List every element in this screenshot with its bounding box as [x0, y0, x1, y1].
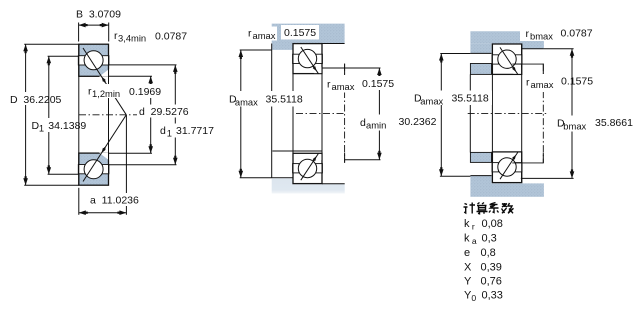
svg-text:3,4min: 3,4min	[118, 33, 146, 44]
svg-text:B 3.0709: B 3.0709	[76, 9, 121, 21]
label a 11.0236	[88, 193, 143, 207]
bearing outer ring top section (blue)	[79, 44, 110, 77]
bearing bottom section (right)	[492, 152, 521, 183]
housing shoulder face line	[271, 44, 273, 179]
svg-text:e: e	[464, 247, 470, 259]
ball bottom	[84, 160, 103, 179]
svg-text:amax: amax	[253, 30, 276, 41]
svg-text:35.5118: 35.5118	[266, 94, 303, 106]
bearing bottom section (blue)	[79, 153, 110, 186]
svg-text:amax: amax	[332, 81, 355, 92]
svg-text:r: r	[526, 77, 530, 89]
dimension d	[109, 76, 154, 153]
bearing side faces (right)	[492, 44, 521, 183]
shaft band bottom right (blue)	[470, 183, 544, 196]
svg-text:0,08: 0,08	[482, 218, 503, 230]
label ramax 0.1575 (middle right)	[325, 76, 398, 93]
svg-text:0.1575: 0.1575	[561, 76, 593, 88]
dimension Dbmax	[521, 49, 575, 179]
label Dbmax 35.8661	[555, 116, 635, 132]
svg-text:0.1575: 0.1575	[362, 78, 394, 90]
svg-text:0.0787: 0.0787	[155, 31, 187, 43]
svg-text:bmax: bmax	[530, 31, 553, 42]
label Damax 35.5118 (middle)	[227, 91, 308, 108]
shoulder bottom right fig	[470, 176, 491, 186]
svg-text:bmax: bmax	[563, 121, 586, 132]
axis line left figure	[79, 114, 137, 116]
label r3,4min 0.0787	[112, 29, 190, 44]
dimension d1	[109, 65, 178, 165]
housing band top right (blue)	[470, 31, 544, 49]
ball middle top	[298, 49, 316, 67]
svg-text:0,39: 0,39	[481, 262, 502, 274]
dimension a	[79, 115, 127, 215]
dimension B	[79, 23, 109, 42]
ball middle bottom	[298, 159, 316, 177]
dimension Da (middle)	[239, 50, 272, 178]
svg-text:k a: k a	[464, 233, 477, 247]
svg-text:1,2min: 1,2min	[92, 88, 120, 99]
dimension D1	[47, 56, 79, 174]
label ramax 0.1575 (right)	[524, 74, 597, 93]
glyph 算	[477, 203, 488, 214]
svg-text:0,33: 0,33	[482, 290, 503, 302]
svg-text:0,3: 0,3	[482, 233, 497, 245]
ball right top	[498, 50, 516, 68]
bearing top section (right)	[492, 44, 521, 74]
bearing side faces (middle)	[293, 44, 322, 184]
inner ring reference lines (right)	[512, 64, 543, 164]
svg-text:30.2362: 30.2362	[399, 116, 437, 128]
svg-text:0,76: 0,76	[481, 276, 502, 288]
contact line middle top	[301, 47, 319, 74]
svg-text:0,8: 0,8	[481, 247, 496, 259]
bearing top section (middle)	[293, 44, 322, 74]
svg-text:r: r	[327, 79, 331, 91]
dimension damin	[322, 68, 382, 160]
bottom section side notches	[78, 165, 109, 174]
spacer face line	[469, 74, 471, 152]
housing band top (blue)	[272, 24, 345, 50]
label d1 31.7717	[158, 124, 219, 139]
label Damax 35.5118 (right)	[412, 91, 492, 107]
svg-text:1: 1	[167, 128, 172, 139]
svg-text:Y: Y	[464, 276, 472, 288]
svg-text:Y0: Y0	[464, 290, 476, 304]
svg-text:D 36.2205: D 36.2205	[10, 94, 62, 106]
svg-text:0.1575: 0.1575	[284, 27, 316, 39]
svg-text:35.8661: 35.8661	[595, 117, 633, 129]
svg-text:0.0787: 0.0787	[561, 28, 593, 40]
bearing bottom section (middle)	[293, 153, 322, 183]
label damin 30.2362	[358, 115, 440, 131]
top section side notches	[78, 56, 109, 65]
svg-text:d: d	[160, 125, 166, 137]
heading 计算系数 (drawn strokes, CJK font not available)	[464, 203, 514, 214]
svg-text:amax: amax	[420, 96, 443, 107]
label D1 34.1389	[30, 118, 87, 134]
contact line right bottom	[500, 152, 518, 179]
svg-text:0.1969: 0.1969	[129, 86, 161, 98]
label d 29.5276	[137, 105, 192, 119]
svg-text:d 29.5276: d 29.5276	[139, 106, 189, 118]
shaft shoulder lines bottom-left	[272, 151, 322, 178]
glyph 计	[464, 203, 476, 214]
svg-text:35.5118: 35.5118	[452, 93, 489, 105]
svg-text:34.1389: 34.1389	[48, 120, 86, 132]
svg-text:1: 1	[39, 123, 44, 134]
housing shoulder right fig	[470, 44, 491, 54]
svg-text:amax: amax	[235, 97, 258, 108]
svg-text:r: r	[526, 28, 530, 40]
contact angle line top	[83, 48, 126, 115]
svg-text:k r: k r	[464, 218, 475, 232]
label ramax 0.1575 (middle top)	[246, 25, 319, 41]
contact angle line bottom	[83, 115, 126, 182]
label D 36.2205	[8, 92, 62, 106]
svg-text:a 11.0236: a 11.0236	[90, 195, 139, 207]
bearing side faces	[79, 44, 109, 185]
ball right bottom	[498, 158, 516, 176]
fillet reference line (middle)	[344, 64, 346, 163]
spacer washer bottom	[470, 152, 491, 162]
label rbmax 0.0787	[520, 25, 593, 42]
svg-text:X: X	[464, 262, 472, 274]
dimension D	[23, 44, 79, 185]
label r1,2min 0.1969	[86, 84, 164, 99]
svg-text:31.7717: 31.7717	[176, 125, 214, 137]
glyph 系	[489, 203, 499, 213]
axis line right figure	[468, 112, 547, 114]
svg-text:amax: amax	[531, 79, 554, 90]
svg-text:r: r	[248, 28, 252, 40]
axis line middle figure	[296, 113, 345, 115]
spacer washer top	[470, 64, 491, 75]
contact line right top	[500, 47, 518, 74]
glyph 数	[502, 203, 514, 213]
dimension Da (right)	[439, 54, 470, 177]
ball top	[84, 51, 103, 70]
shaft band bottom (light blue)	[272, 178, 345, 193]
svg-text:amin: amin	[366, 120, 386, 131]
contact line middle bottom	[301, 153, 319, 180]
